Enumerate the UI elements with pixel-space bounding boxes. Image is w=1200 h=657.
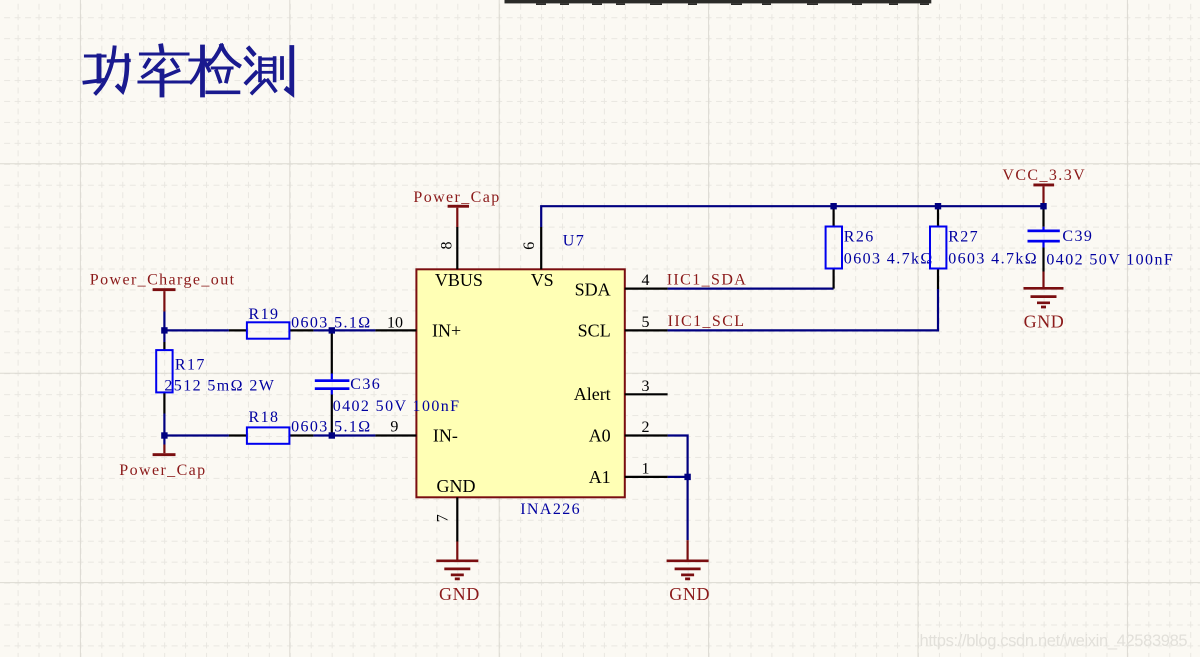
svg-text:1: 1 bbox=[642, 461, 650, 478]
svg-text:2512 5mΩ 2W: 2512 5mΩ 2W bbox=[164, 378, 275, 395]
svg-text:0603 4.7kΩ: 0603 4.7kΩ bbox=[948, 251, 1038, 268]
ground symbol at C39 bbox=[1024, 272, 1065, 332]
svg-text:Power_Cap: Power_Cap bbox=[119, 462, 206, 479]
svg-text:2: 2 bbox=[642, 419, 650, 436]
svg-text:7: 7 bbox=[434, 514, 451, 522]
svg-text:https://blog.csdn.net/weixin_4: https://blog.csdn.net/weixin_42583985 bbox=[920, 632, 1188, 650]
pin 4 SDA bbox=[625, 288, 668, 290]
resistor R19 bbox=[229, 306, 372, 339]
svg-text:A0: A0 bbox=[589, 425, 611, 445]
junction at C36 top / IN+ bbox=[329, 327, 335, 333]
wire SDA to R26 bbox=[668, 288, 834, 290]
svg-text:GND: GND bbox=[669, 584, 710, 604]
svg-text:IIC1_SCL: IIC1_SCL bbox=[668, 313, 746, 330]
svg-text:C36: C36 bbox=[350, 376, 381, 393]
svg-text:3: 3 bbox=[642, 378, 650, 395]
junction at R26 top on VCC rail bbox=[830, 203, 836, 209]
wire VS to VCC rail bbox=[541, 206, 1043, 227]
svg-text:5: 5 bbox=[642, 314, 650, 331]
wire A1 to junction bbox=[668, 476, 688, 478]
op-amp/IC body U7 INA226 bbox=[416, 269, 624, 497]
svg-text:6: 6 bbox=[521, 242, 538, 250]
svg-text:GND: GND bbox=[1024, 311, 1065, 331]
designator U7 bbox=[563, 233, 585, 250]
net label IIC1_SDA bbox=[667, 272, 748, 289]
svg-text:GND: GND bbox=[439, 584, 480, 604]
svg-text:R17: R17 bbox=[175, 356, 206, 373]
wire IN- row bbox=[164, 434, 375, 436]
svg-text:VBUS: VBUS bbox=[435, 270, 483, 290]
resistor R18 bbox=[229, 409, 372, 444]
junction at Power_Charge_out / R17 / R19 bbox=[161, 327, 167, 333]
svg-text:R18: R18 bbox=[249, 409, 280, 426]
svg-text:IN+: IN+ bbox=[432, 321, 461, 341]
power port Power_Charge_out bbox=[90, 272, 236, 331]
power port Power_Cap top bbox=[413, 189, 500, 227]
redacted black bar top bbox=[505, 0, 932, 5]
wire R17 column bbox=[163, 330, 165, 435]
pin 9 IN- bbox=[375, 434, 416, 436]
svg-text:0603 4.7kΩ: 0603 4.7kΩ bbox=[844, 251, 934, 268]
junction at R17 bottom / Power_Cap bbox=[161, 432, 167, 438]
svg-text:4: 4 bbox=[642, 272, 650, 289]
junction at VCC_3.3V / C39 bbox=[1040, 203, 1046, 209]
ground symbol below A0/A1 bbox=[667, 540, 711, 604]
pin 6 VS vertical bbox=[540, 227, 542, 269]
svg-text:R26: R26 bbox=[844, 229, 875, 246]
pin 2 A0 bbox=[625, 434, 668, 436]
svg-text:VCC_3.3V: VCC_3.3V bbox=[1002, 167, 1086, 184]
wire IN+ row bbox=[164, 329, 375, 331]
svg-text:SDA: SDA bbox=[575, 280, 611, 300]
svg-text:C39: C39 bbox=[1062, 228, 1093, 245]
junction at C36 bottom / IN- bbox=[329, 432, 335, 438]
resistor R27 bbox=[930, 206, 1038, 289]
pin 8 VBUS vertical bbox=[456, 227, 458, 269]
svg-text:0402 50V 100nF: 0402 50V 100nF bbox=[1046, 252, 1174, 269]
pin 3 Alert bbox=[625, 393, 668, 395]
capacitor C39 bbox=[1028, 206, 1175, 271]
capacitor C36 bbox=[315, 330, 461, 435]
svg-text:SCL: SCL bbox=[578, 321, 611, 341]
svg-text:R27: R27 bbox=[948, 229, 979, 246]
svg-text:0402 50V 100nF: 0402 50V 100nF bbox=[333, 398, 461, 415]
svg-text:INA226: INA226 bbox=[520, 501, 581, 518]
wire SCL to R27 bbox=[668, 289, 938, 330]
svg-text:Alert: Alert bbox=[574, 384, 611, 404]
junction at A1 / A0 ground wire bbox=[684, 474, 690, 480]
svg-text:8: 8 bbox=[439, 242, 456, 250]
svg-text:Power_Cap: Power_Cap bbox=[413, 189, 500, 206]
title 功率检测 drawn as strokes bbox=[85, 46, 292, 95]
net label IIC1_SCL bbox=[668, 313, 746, 330]
power port VCC_3.3V bbox=[1002, 167, 1086, 206]
resistor R17 bbox=[156, 342, 275, 414]
resistor R26 bbox=[826, 206, 934, 288]
char 检 bbox=[190, 46, 239, 95]
pin 5 SCL bbox=[625, 329, 668, 331]
power port Power_Cap bottom bbox=[119, 436, 206, 479]
svg-text:10: 10 bbox=[387, 315, 403, 332]
svg-text:VS: VS bbox=[531, 270, 554, 290]
ground symbol below pin 7 bbox=[436, 542, 480, 605]
junction at R27 top on VCC rail bbox=[935, 203, 941, 209]
svg-text:R19: R19 bbox=[249, 306, 280, 323]
char 测 bbox=[246, 48, 291, 94]
svg-text:U7: U7 bbox=[563, 233, 585, 250]
pin 7 GND vertical bbox=[456, 497, 458, 541]
pin 10 IN+ bbox=[375, 329, 416, 331]
svg-text:9: 9 bbox=[390, 418, 398, 435]
svg-text:GND: GND bbox=[437, 476, 476, 496]
svg-text:Power_Charge_out: Power_Charge_out bbox=[90, 272, 236, 289]
svg-text:IN-: IN- bbox=[433, 425, 458, 445]
char 功 bbox=[85, 48, 130, 94]
part name INA226 bbox=[520, 501, 581, 518]
pin 1 A1 bbox=[625, 476, 668, 478]
svg-text:IIC1_SDA: IIC1_SDA bbox=[667, 272, 748, 289]
char 率 bbox=[139, 46, 189, 95]
svg-text:A1: A1 bbox=[589, 467, 611, 487]
wire A0 down bbox=[668, 436, 688, 541]
